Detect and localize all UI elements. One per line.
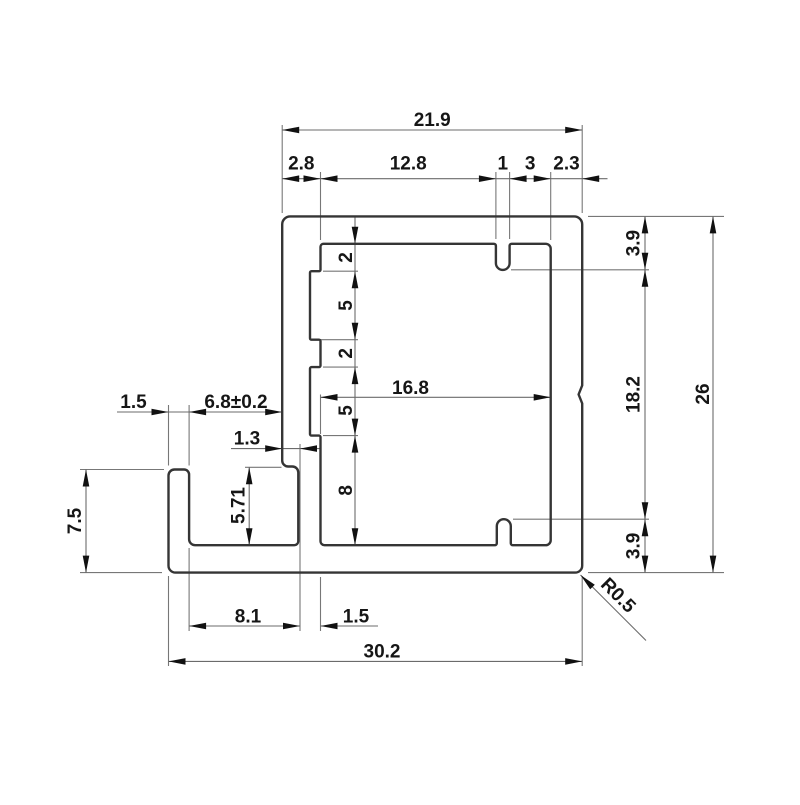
svg-text:2.8: 2.8 bbox=[288, 154, 314, 175]
svg-text:5: 5 bbox=[336, 300, 357, 311]
2.3 right outside bbox=[582, 175, 599, 182]
21.9 bbox=[282, 127, 299, 134]
30.2 bbox=[169, 658, 186, 665]
svg-text:5.71: 5.71 bbox=[229, 487, 250, 524]
right stack 3.9/18.2/3.9 bbox=[642, 216, 649, 233]
svg-text:1.5: 1.5 bbox=[120, 392, 147, 413]
svg-text:3.9: 3.9 bbox=[624, 230, 645, 256]
svg-text:3: 3 bbox=[525, 154, 536, 175]
svg-text:16.8: 16.8 bbox=[392, 378, 429, 399]
stack 2,5,2,5,8 bbox=[352, 227, 359, 244]
1.5 left / 6.8 bbox=[152, 409, 169, 416]
svg-text:12.8: 12.8 bbox=[390, 154, 427, 175]
svg-text:1.5: 1.5 bbox=[343, 607, 370, 628]
12.8 bbox=[321, 175, 338, 182]
1.3 bbox=[265, 445, 282, 452]
svg-text:1.3: 1.3 bbox=[234, 429, 260, 450]
svg-text:7.5: 7.5 bbox=[65, 507, 86, 534]
8.1 bbox=[189, 623, 206, 630]
7.5 bbox=[83, 470, 90, 487]
svg-text:21.9: 21.9 bbox=[414, 110, 451, 131]
svg-text:26: 26 bbox=[693, 383, 714, 404]
3 bbox=[510, 175, 527, 182]
arrowheads bbox=[83, 127, 717, 665]
svg-text:8.1: 8.1 bbox=[235, 607, 262, 628]
extension lines bbox=[80, 125, 724, 666]
svg-text:8: 8 bbox=[336, 485, 357, 496]
svg-text:2: 2 bbox=[336, 252, 357, 263]
svg-text:6.8±0.2: 6.8±0.2 bbox=[204, 392, 267, 413]
2.8 bbox=[282, 175, 299, 182]
svg-text:30.2: 30.2 bbox=[364, 642, 401, 663]
svg-text:2.3: 2.3 bbox=[553, 154, 579, 175]
5.71 bbox=[246, 467, 253, 484]
svg-text:18.2: 18.2 bbox=[624, 376, 645, 413]
svg-text:5: 5 bbox=[336, 405, 357, 416]
svg-text:3.9: 3.9 bbox=[624, 533, 645, 559]
svg-text:1: 1 bbox=[498, 154, 509, 175]
16.8 bbox=[321, 394, 338, 401]
profile outline bbox=[169, 216, 583, 572]
dimension lines bbox=[86, 130, 713, 661]
1.5 bottom bbox=[321, 623, 338, 630]
26 bbox=[710, 216, 717, 233]
svg-text:2: 2 bbox=[336, 348, 357, 359]
R0.5 leader arrow bbox=[581, 575, 595, 589]
